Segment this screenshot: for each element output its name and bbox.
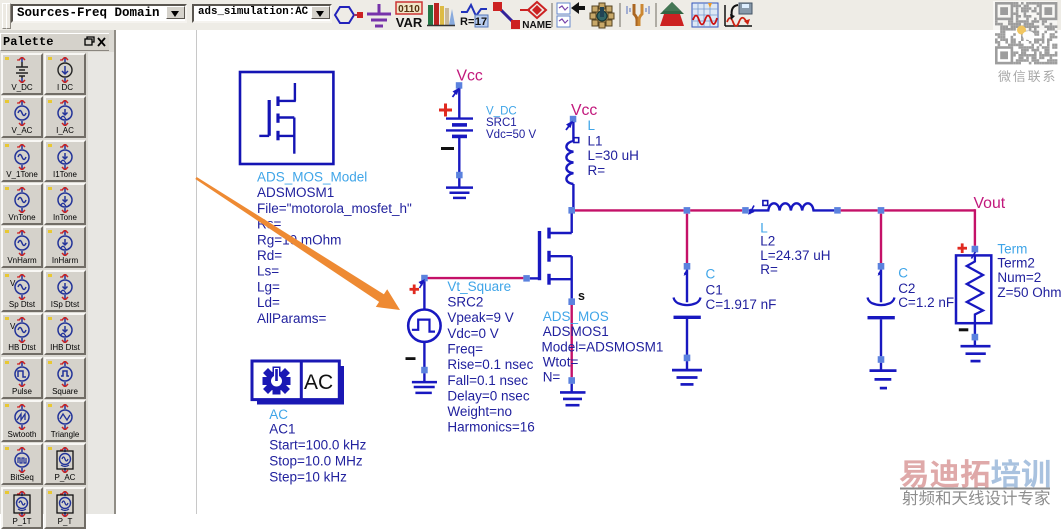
toolbar icon: VAR — [396, 2, 423, 30]
wire SRC1 bottom lead — [458, 138, 460, 187]
toolbar icon: save plot — [725, 3, 752, 26]
ground at MOSFET source — [560, 384, 586, 405]
value label Term2 Num=2 Z=50 Ohm — [997, 241, 1061, 300]
node square at L1 top — [570, 116, 577, 123]
value label AC1 simulation parameters — [269, 407, 366, 485]
toolbar icon: optimize arrow — [660, 2, 684, 26]
transistor ADSMOS1 (MOSFET symbol) — [530, 214, 572, 299]
wire C2 junction down — [880, 214, 882, 264]
capacitor C2 — [868, 270, 895, 357]
node square at SRC2 top — [421, 275, 428, 282]
node square above MOSFET ground — [568, 377, 575, 384]
node square at MOSFET gate — [523, 275, 530, 282]
separator — [551, 3, 553, 27]
ground at SRC1 — [446, 188, 473, 198]
value label C1 C=1.917 nF — [706, 267, 777, 313]
inductor L2 (coil) — [749, 203, 835, 210]
MOSFET model box ADS_MOS_Model (symbol frame) — [240, 72, 333, 164]
junction node square (L1/MOSFET drain) — [568, 207, 575, 214]
toolbar icon: tuning fork — [627, 4, 649, 26]
wire stub arrow at SRC1 Vcc node — [453, 88, 460, 98]
wire SRC1 top lead — [458, 89, 460, 119]
voltage source V_DC SRC1 (battery symbol) — [446, 119, 473, 137]
node square at C1 bottom — [684, 355, 691, 362]
junction node square at C2 — [878, 207, 885, 214]
wire L1 bottom lead — [572, 184, 574, 208]
annotation arrow (orange) — [195, 177, 400, 310]
toolbar icon: NAME node name — [520, 2, 552, 31]
node square at C1 top — [684, 263, 691, 270]
polarity minus sign at SRC1 — [441, 147, 454, 150]
simulation controller AC box — [252, 361, 339, 400]
toolbar icon: library books — [427, 3, 455, 26]
node square at Term2 top — [972, 246, 979, 253]
wire SRC2 bottom lead — [423, 342, 425, 368]
toolbar icon: wire label — [493, 2, 520, 29]
ground at Term2 — [961, 340, 991, 361]
pin arrow at SRC2 top node — [419, 279, 426, 288]
pin arrow at Term2 top — [971, 252, 975, 259]
node square at SRC2 bottom — [421, 367, 428, 374]
toolbar icon: R=17 component parameters — [460, 5, 488, 28]
value label V_DC SRC1 Vdc=50 V — [486, 106, 537, 142]
wire drain node to C1 junction — [575, 209, 684, 211]
simulation controller AC box (shadow) — [257, 366, 344, 405]
polarity plus sign at SRC1 — [439, 104, 452, 117]
node square at MOSFET source — [568, 298, 575, 305]
termination Term2 (box with resistor) — [956, 255, 991, 323]
wire MOSFET source to ground — [571, 305, 573, 377]
toolbar icon: ground — [367, 4, 391, 26]
wire SRC2 top lead — [423, 281, 425, 309]
toolbar icon: insert pin (hexagon) — [335, 7, 363, 23]
wire L2 to C2 junction — [841, 209, 878, 211]
value label L2 L=24.37 uH — [760, 220, 830, 277]
node square at SRC1 bottom — [456, 172, 463, 179]
value label Vt_Square SRC2 — [447, 279, 534, 435]
inductor L1 (coil) — [566, 141, 573, 184]
node square at L2 pin 1 — [742, 207, 749, 214]
node square at C2 bottom — [878, 356, 885, 363]
junction node square at C1 — [684, 207, 691, 214]
pin square at L1 pin 1 — [574, 138, 579, 143]
ground at C2 — [870, 363, 897, 388]
polarity plus sign at Term2 — [958, 243, 968, 253]
node square at SRC1 top — [456, 82, 463, 89]
toolbar icon: push into hierarchy — [557, 2, 585, 27]
voltage source Vt_Square SRC2 (circle with square wave) — [408, 310, 440, 342]
node square at L2 pin 2 — [834, 207, 841, 214]
node square at Term2 bottom — [972, 334, 979, 341]
pin arrow at L2 pin 1 — [748, 206, 755, 215]
wire C2 junction to Vout corner — [884, 209, 975, 211]
separator — [655, 3, 657, 27]
polarity minus sign at SRC2 — [406, 357, 416, 360]
pin square at L2 pin 1 — [763, 201, 768, 206]
value label C2 C=1.2 nF — [898, 266, 954, 310]
toolbar icon: simulate gear — [590, 3, 614, 28]
node square at C2 top — [878, 263, 885, 270]
wire C1 junction to L2 — [690, 209, 742, 211]
pin arrow at C1 top — [684, 270, 688, 276]
ground at SRC2 — [412, 373, 437, 393]
pin label s (source) of ADSMOS1 — [578, 289, 585, 303]
separator — [619, 3, 621, 27]
wire C1 junction down — [686, 214, 688, 264]
polarity plus sign at SRC2 — [410, 285, 420, 295]
wire stub arrow at L1 Vcc node — [566, 121, 573, 131]
ground at C1 — [672, 361, 702, 384]
value label L1 L=30 uH — [588, 118, 639, 178]
wire Vout corner down to Term2 — [974, 209, 976, 246]
value label ADS_MOS ADSMOS1 — [542, 309, 664, 385]
wire L1 top lead — [572, 122, 574, 141]
node Vout label — [974, 195, 1006, 212]
toolbar icon: data display — [692, 3, 718, 27]
wire Term2 bottom lead — [974, 323, 976, 334]
pin arrow at C2 top — [878, 270, 882, 276]
wire gate to SRC2 — [427, 277, 523, 279]
node Vcc (label at L1) — [571, 102, 597, 119]
capacitor C1 — [674, 270, 701, 355]
polarity minus sign at Term2 — [959, 328, 969, 331]
node Vcc (label at SRC1) — [457, 68, 483, 85]
value label ADS_MOS_Model parameter list — [257, 170, 412, 326]
